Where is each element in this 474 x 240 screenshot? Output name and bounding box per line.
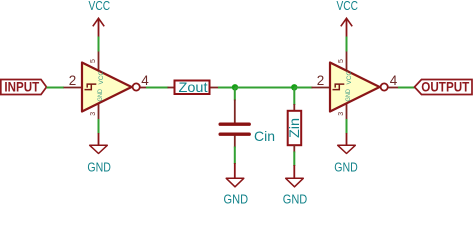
schmitt symbol: [85, 84, 97, 90]
svg-text:GND: GND: [87, 160, 111, 175]
svg-text:GND: GND: [334, 160, 358, 175]
svg-text:5: 5: [90, 59, 97, 63]
svg-text:VCC: VCC: [346, 71, 353, 85]
output bubble: [133, 83, 140, 90]
wire pin 3 to GND: [98, 119, 100, 134]
capacitor Cin: [220, 100, 275, 148]
svg-text:GND: GND: [97, 89, 104, 102]
svg-text:VCC: VCC: [336, 0, 358, 13]
wire INPUT to U1 pin 2: [47, 87, 65, 89]
svg-text:Cin: Cin: [254, 128, 275, 144]
power GND (right): [334, 133, 358, 175]
op-amp U1 (Schmitt inverter, left): [64, 51, 152, 123]
wire Zout to junction: [218, 87, 235, 89]
wire junction B to U2 pin 2: [294, 87, 312, 89]
wire VCC to U2 pin 5: [346, 37, 348, 52]
op-amp U2 (Schmitt inverter, right): [312, 51, 400, 123]
triangle body: [82, 63, 132, 112]
wire VCC to pin 5: [98, 37, 100, 52]
svg-text:4: 4: [141, 73, 149, 88]
wire junction B down to Zin: [293, 88, 295, 106]
wire pin 4 to Zout: [146, 87, 169, 89]
svg-text:Zout: Zout: [179, 79, 208, 95]
svg-text:VCC: VCC: [98, 71, 105, 85]
wire Zin to GND: [293, 152, 295, 167]
resistor Zin: [286, 104, 302, 153]
global label OUTPUT: [415, 79, 473, 95]
svg-text:OUTPUT: OUTPUT: [421, 79, 469, 95]
svg-text:2: 2: [69, 73, 77, 88]
junction B: [291, 84, 297, 90]
pin 5: [346, 51, 348, 71]
svg-text:Zin: Zin: [286, 118, 302, 138]
wire U2 pin 3 to GND: [346, 119, 348, 134]
svg-text:3: 3: [338, 112, 345, 116]
resistor Zout: [168, 79, 220, 95]
pin 2: [64, 87, 83, 89]
svg-text:INPUT: INPUT: [4, 79, 39, 95]
wire junction A down to Cin: [234, 88, 236, 101]
svg-text:5: 5: [338, 59, 345, 63]
wire Cin to GND: [234, 147, 236, 165]
global label INPUT: [1, 79, 47, 95]
pin 3: [346, 104, 348, 123]
wire U2 pin 4 to OUTPUT: [398, 87, 415, 89]
svg-text:GND: GND: [224, 192, 249, 207]
schmitt symbol: [333, 84, 345, 90]
svg-text:GND: GND: [345, 89, 352, 102]
power GND (under Zin): [283, 165, 308, 207]
pin 4: [141, 87, 152, 89]
svg-text:4: 4: [390, 73, 398, 88]
output bubble: [381, 83, 388, 90]
pin 3: [98, 104, 100, 123]
pin 4: [389, 87, 400, 89]
svg-text:2: 2: [317, 73, 325, 88]
power VCC (left): [89, 0, 111, 38]
power GND (under Cin): [224, 163, 249, 207]
junction A: [232, 84, 238, 90]
wire junction A to junction B: [235, 87, 294, 89]
svg-text:3: 3: [90, 112, 97, 116]
svg-text:GND: GND: [283, 192, 308, 207]
svg-text:VCC: VCC: [89, 0, 111, 13]
triangle body: [330, 63, 380, 112]
power GND (left): [87, 133, 111, 175]
power VCC (right): [336, 0, 358, 38]
pin 2: [312, 87, 331, 89]
pin 5: [98, 51, 100, 71]
